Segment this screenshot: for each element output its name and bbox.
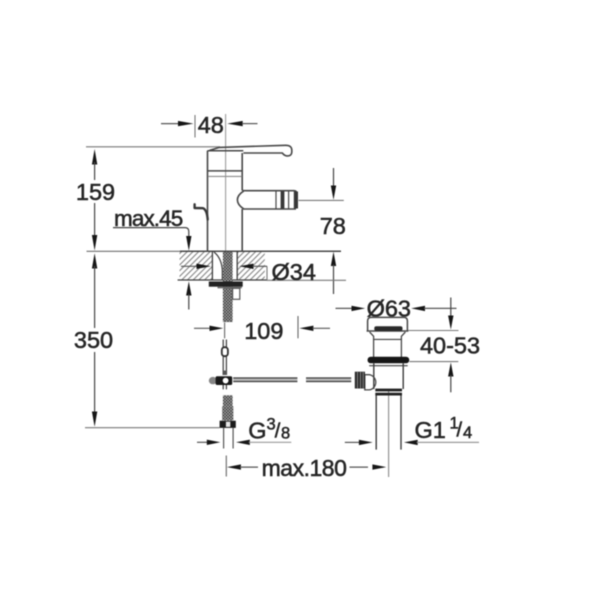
rod segment <box>223 356 226 371</box>
dimension G1 1/4 <box>345 440 479 445</box>
locknut <box>209 282 243 287</box>
waste body below seal <box>374 363 403 389</box>
aerator <box>275 191 277 209</box>
dimension G3/8 <box>197 440 291 445</box>
max180 left extension <box>225 456 227 477</box>
faucet handle lever <box>210 145 292 156</box>
waste neck <box>370 332 406 357</box>
dimension max.180 <box>227 455 386 481</box>
dimension 40-53 top extension <box>408 330 459 332</box>
threaded shank <box>223 252 233 322</box>
deck hatch left <box>180 252 213 280</box>
svg-text:/: / <box>457 420 463 442</box>
dimension 48 right arrow <box>227 121 257 126</box>
G 3/8 nut <box>220 421 236 428</box>
bottom reference line (hose end level) <box>85 427 220 429</box>
svg-text:Ø34: Ø34 <box>272 259 316 285</box>
stopper bar <box>374 326 402 331</box>
dimension 109 <box>194 316 330 344</box>
dimension Ø63 <box>336 306 457 311</box>
svg-text:G1: G1 <box>415 417 446 443</box>
dimension 40-53 <box>448 298 453 393</box>
knurled nut <box>355 372 365 389</box>
dimension 78 extension line (spout level) <box>299 199 344 201</box>
seal ring <box>368 357 410 364</box>
159 top extension line <box>86 146 220 148</box>
waste dome <box>367 317 409 331</box>
horizontal actuating rod <box>233 378 351 382</box>
pipe below nut <box>224 428 234 449</box>
pop-up rod vertical <box>223 340 226 348</box>
svg-text:159: 159 <box>76 179 115 205</box>
collar lines <box>207 170 242 172</box>
faucet body outline <box>208 151 243 252</box>
flange under seal <box>369 365 408 367</box>
svg-text:109: 109 <box>244 318 283 344</box>
dimension 48 left arrow <box>161 121 194 126</box>
rod connector above clamp <box>223 371 228 376</box>
spout <box>237 191 296 210</box>
max.45 upper arrow (to deck top) <box>186 236 191 251</box>
svg-text:40-53: 40-53 <box>420 333 480 359</box>
svg-text:8: 8 <box>281 425 290 443</box>
svg-text:max.180: max.180 <box>262 455 347 481</box>
trumpet curve <box>214 252 222 280</box>
rod below clamp <box>223 385 226 389</box>
deck hatch right <box>237 252 264 280</box>
dimension 159 <box>92 149 97 251</box>
faucet centerline <box>225 114 227 251</box>
deck hole left edge <box>211 251 213 280</box>
max.45 lower arrow (to deck bottom) <box>186 281 191 309</box>
deck top line <box>87 250 181 252</box>
tail pipe G1 1/4 <box>376 396 401 450</box>
faucet body top line <box>208 150 244 152</box>
shelf under Ø34 <box>267 266 346 280</box>
deck hole right edge <box>236 251 238 280</box>
side tab <box>233 288 240 299</box>
dimension 350 <box>92 253 97 427</box>
deck bottom line <box>178 279 267 281</box>
svg-text:G: G <box>248 418 266 444</box>
dimension 48 extension line left <box>194 115 196 138</box>
coupling rings <box>375 389 402 392</box>
dimension 78 <box>320 168 346 294</box>
pop-up knob horn (left) <box>195 204 208 219</box>
G 3/8 threaded fitting <box>223 395 233 406</box>
waste centerline <box>388 391 390 477</box>
rod fitting eye <box>222 347 228 356</box>
svg-text:48: 48 <box>198 112 224 138</box>
dimension 40-53 bottom extension <box>410 361 459 363</box>
svg-text:350: 350 <box>74 327 113 353</box>
svg-text:78: 78 <box>320 213 346 239</box>
svg-text:4: 4 <box>463 424 472 442</box>
ball rod housing <box>365 375 376 390</box>
dimension Ø34 arrows <box>181 264 267 269</box>
clamp pivot <box>209 377 217 384</box>
svg-text:/: / <box>275 420 281 442</box>
